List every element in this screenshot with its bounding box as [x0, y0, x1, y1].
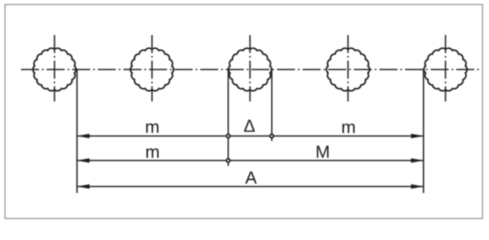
arrow left line 1	[77, 134, 90, 138]
arrow right line 1	[411, 134, 424, 138]
extension line from roller 1 right edge	[76, 70, 78, 194]
label delta (line 1 centre)	[244, 120, 255, 132]
label A (line 3)	[245, 172, 257, 184]
label m (line 1 left)	[146, 123, 158, 132]
roller 1	[33, 35, 76, 102]
dimension line 3 (A)	[77, 186, 424, 188]
extension line from roller 5 left edge	[423, 70, 425, 194]
arrow right line 2	[411, 158, 424, 162]
roller 2	[130, 35, 173, 102]
label m (line 1 right)	[342, 124, 354, 133]
junction dot line1 left	[226, 134, 231, 139]
junction dot line2	[226, 158, 231, 163]
roller 3	[228, 35, 271, 102]
dimension line 1 (m / delta / m)	[77, 135, 424, 137]
extension line from roller 3 right edge	[271, 70, 273, 142]
arrow right line 3	[411, 184, 424, 188]
roller 4	[326, 35, 369, 102]
roller 5	[424, 35, 467, 102]
dimension line 2 (m / M)	[77, 160, 424, 162]
extension line from roller 3 left edge	[227, 70, 229, 167]
label m (line 2 left)	[146, 148, 158, 157]
arrow left line 2	[77, 158, 90, 162]
common centre line	[21, 69, 479, 71]
arrow left line 3	[77, 184, 90, 188]
junction dot line1 right	[269, 134, 274, 139]
label M (line 2 right)	[317, 146, 329, 158]
